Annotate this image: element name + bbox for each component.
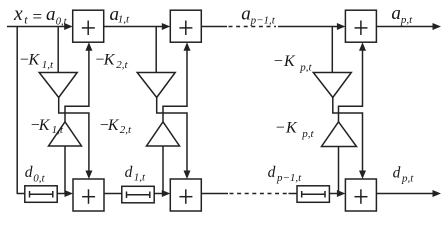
svg-text:0,t: 0,t [33,173,45,185]
wire from -Kpb apex to top summer [339,49,363,122]
wire from -K1 apex to bottom summer [59,98,89,173]
wire top solid to Up [278,26,339,28]
label -K_2,t upper [95,52,128,71]
svg-text:t: t [24,13,28,27]
svg-text:d: d [393,165,401,182]
arrowhead up into top summer Up [359,42,366,51]
svg-text:d: d [25,164,33,181]
wire top path input segment [7,26,66,28]
arrowhead output a_p [433,23,442,30]
node tap x_t vertical left [16,27,18,194]
summer U2 (top stage 2) [170,10,201,42]
node tap stage p top [331,27,333,73]
svg-text:a: a [241,4,251,25]
wire d_p output [376,193,434,195]
amplifier -K2b up triangle [147,122,180,146]
svg-text:−: − [20,52,29,69]
svg-text:=: = [33,7,43,26]
wire top solid after U2 [201,26,227,28]
svg-text:0,t: 0,t [56,17,68,28]
svg-text:d: d [268,164,276,181]
arrowhead up into top summer U2 [184,42,191,51]
arrowhead into bottom summer Sp [337,190,346,197]
node tap stage1 top [57,27,59,73]
arrowhead into bottom summer S1 [65,190,74,197]
amplifier -Kp down triangle [313,73,351,98]
svg-text:p,t: p,t [299,62,312,74]
svg-text:K: K [283,53,296,70]
svg-text:1,t: 1,t [118,13,130,25]
summer U1 (top stage 1) [73,10,104,42]
arrowhead into summer Up [337,23,346,30]
summer Sp (bottom stage p) [345,179,376,211]
wire a1 segment [104,26,164,28]
amplifier -K1 down triangle [39,73,77,98]
svg-text:p−1,t: p−1,t [250,14,276,26]
svg-text:a: a [46,4,56,25]
delay Dp box [297,186,329,203]
label a_p-1,t [241,4,275,27]
wire d1 segment [104,193,122,195]
svg-text:p−1,t: p−1,t [276,172,302,184]
svg-text:K: K [285,120,298,137]
arrowhead into summer U2 [162,23,171,30]
svg-text:x: x [13,4,23,25]
label -K_2,t lower [100,117,132,136]
svg-text:1,t: 1,t [42,59,54,71]
svg-text:1,t: 1,t [134,172,146,184]
wire bottom solid after S2 [201,193,228,195]
wire a_p output [376,26,434,28]
svg-text:d: d [125,164,133,181]
label a_p,t [391,3,413,26]
wire from -K1b apex to top summer [65,49,89,122]
wire delay D2 to summer S2 [154,193,164,195]
label -K_p,t lower [276,120,315,141]
svg-text:a: a [391,3,401,24]
label a_1,t [110,4,131,25]
delay D2 box [122,186,154,203]
wire top dashed ellipsis [229,26,277,28]
amplifier -K1b up triangle [49,122,82,146]
svg-text:p,t: p,t [401,173,414,185]
arrowhead down into bottom summer S2 [184,171,191,180]
svg-text:p,t: p,t [301,128,314,140]
label d_p,t [393,165,415,185]
arrowhead into bottom summer S2 [162,190,171,197]
svg-text:−: − [274,53,283,70]
wire from -K2 apex to bottom summer [157,98,187,173]
amplifier -Kpb up triangle [322,122,357,147]
node tap stage2 bottom [162,146,164,194]
svg-text:2,t: 2,t [116,59,128,71]
wire from -K2b apex to top summer [163,49,187,122]
summer S2 (bottom stage 2) [170,179,201,211]
label x_t = a_0,t [13,4,68,27]
svg-text:1,t: 1,t [52,124,64,136]
arrowhead into summer U1 [64,23,73,30]
svg-text:2,t: 2,t [120,124,132,136]
summer S1 (bottom stage 1) [73,179,104,211]
arrowhead up into top summer U1 [85,42,92,51]
amplifier -K2 down triangle [137,73,175,98]
arrowhead output d_p [433,190,442,197]
svg-text:−: − [276,120,285,137]
summer Up (top stage p) [345,10,376,42]
svg-text:K: K [28,52,41,69]
wire bottom solid to delay Dp [289,193,298,195]
svg-text:p,t: p,t [400,14,413,26]
label -K_1,t lower [31,117,64,136]
arrowhead down into bottom summer Sp [359,171,366,180]
wire delay D1 to summer S1 [57,193,66,195]
label d_p-1,t [268,164,303,184]
label -K_1,t upper [20,52,54,71]
wire bottom-left to delay D1 [17,193,25,195]
svg-text:K: K [103,52,116,69]
svg-text:K: K [38,117,51,134]
label d_0,t [25,164,46,185]
wire delay Dp to summer Sp [329,193,339,195]
wire bottom dashed ellipsis [230,193,288,195]
wire from -Kp apex to bottom summer [333,98,363,173]
label d_1,t [125,164,146,184]
delay D1 box [25,186,57,203]
node tap stage1 bottom [64,146,66,194]
node tap stage p bottom [338,146,340,194]
svg-text:K: K [107,117,120,134]
node tap stage2 top [155,27,157,73]
label -K_p,t upper [274,53,313,74]
arrowhead down into bottom summer S1 [85,171,92,180]
